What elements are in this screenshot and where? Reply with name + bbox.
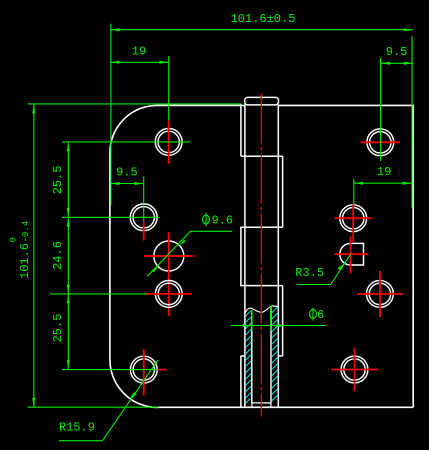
phi symbol for 9.6	[203, 213, 210, 227]
section hatch left wall	[246, 311, 251, 404]
svg-text:25.5: 25.5	[51, 166, 65, 195]
pin right edge	[270, 308, 272, 404]
dim line 9.5 top-right	[381, 62, 413, 64]
hole L1 (top-left)	[155, 129, 182, 156]
section hatch right wall	[272, 307, 278, 401]
svg-text:9.6: 9.6	[212, 214, 234, 228]
ext line hole col A right	[380, 58, 382, 161]
phi9.6 arrows	[180, 240, 186, 246]
top dim arrows	[110, 28, 119, 31]
break wavy line	[245, 306, 278, 314]
hole R1 (top-right)	[367, 129, 394, 156]
notch red centerlines	[335, 237, 369, 274]
svg-text:25.5: 25.5	[51, 314, 65, 343]
hole L2	[130, 204, 157, 231]
pin left edge	[251, 312, 253, 404]
dim line 19 right	[354, 182, 412, 184]
svg-text:R15.9: R15.9	[59, 420, 95, 434]
row2 ext horizontal	[62, 216, 160, 218]
dim line 9.5 left	[110, 183, 144, 185]
R15.9 leader	[59, 360, 158, 441]
19 TL arrows	[110, 61, 119, 64]
svg-text:101.6: 101.6	[18, 243, 32, 279]
knuckle boundary 3	[240, 285, 283, 287]
ext line hole col B right	[353, 179, 355, 205]
hole L4 red horizontal	[146, 293, 192, 295]
svg-text:24.6: 24.6	[51, 241, 65, 270]
row1 ext horizontal	[62, 141, 190, 143]
left height dim line x33.8	[33, 104, 35, 407]
ext line hole col A left	[168, 56, 170, 121]
phi symbol for 6	[310, 308, 317, 321]
svg-text:9.5: 9.5	[386, 45, 408, 59]
R3.5 arrow	[338, 263, 345, 270]
bottom edge	[158, 406, 413, 408]
R15.9 arrow	[129, 392, 137, 398]
row5 ext horizontal	[62, 369, 157, 371]
hole R2 red centerlines	[335, 205, 372, 242]
svg-text:101.6±0.5: 101.6±0.5	[231, 12, 296, 26]
green arrowheads	[32, 28, 413, 407]
top dim line 101.6	[110, 29, 413, 31]
chain dim line x68.3	[67, 142, 69, 370]
phi6 ext lines over pin	[252, 306, 271, 331]
svg-text:9.5: 9.5	[116, 166, 138, 180]
hole L4	[155, 281, 182, 308]
ext line right vertical x412	[411, 36, 413, 208]
dim line 19 top-left	[110, 61, 169, 63]
hole R4	[367, 281, 394, 308]
hole R1 red horizontal	[361, 141, 400, 143]
hole L5 red centerlines	[144, 349, 167, 396]
svg-text:-0.4: -0.4	[21, 221, 31, 243]
knuckle boundary 2	[240, 226, 282, 228]
barrel red centerline	[260, 94, 262, 417]
hole L2 red centerline vertical	[143, 221, 145, 241]
hinge right leaf outline	[278, 105, 413, 407]
svg-text:6: 6	[317, 308, 324, 322]
hinge left leaf outline	[110, 105, 245, 407]
phi6 arrows	[243, 324, 252, 327]
R3.5 leader	[297, 254, 351, 284]
notch R3.5	[340, 243, 364, 265]
phi9.6 leader diagonal	[147, 231, 232, 276]
text 101.6 0/-0.4 (rotated, with tolerance)	[9, 221, 32, 279]
svg-text:19: 19	[377, 165, 391, 179]
knuckle boundary 1	[241, 155, 283, 157]
row4 ext horizontal	[50, 293, 147, 295]
ext line left vertical x110	[110, 24, 112, 205]
svg-text:R3.5: R3.5	[295, 266, 324, 280]
9.5 L arrows	[110, 182, 119, 185]
left height ext top	[28, 103, 242, 105]
19 R arrows	[354, 182, 363, 185]
ext line hole col B left	[143, 177, 145, 221]
barrel OD right line	[277, 105, 279, 408]
pin bottom cap	[252, 403, 271, 407]
knuckle boundary 4 (split by section)	[241, 355, 283, 357]
left height ext bottom	[28, 406, 158, 408]
hole L5	[130, 356, 157, 383]
big hole red cross	[144, 232, 194, 316]
hole R5 red centerlines	[331, 348, 378, 392]
hole R5	[341, 356, 368, 383]
hole L1 red centerline vertical	[168, 121, 170, 164]
9.5 TR arrows	[381, 62, 390, 65]
svg-text:19: 19	[132, 45, 146, 59]
phi6 dim line	[231, 325, 326, 327]
svg-text:0: 0	[9, 237, 19, 242]
barrel cap (pin head)	[245, 97, 279, 105]
right leaf edge at barrel (segments)	[282, 156, 284, 356]
left leaf edge at barrel (segments)	[240, 104, 242, 407]
hole R2	[340, 205, 367, 232]
big hole phi9.6	[154, 241, 184, 271]
chain arrows	[67, 142, 70, 151]
hole R4 red centerlines	[357, 271, 403, 317]
barrel OD left line	[244, 105, 246, 408]
left height dim arrows	[32, 104, 35, 113]
